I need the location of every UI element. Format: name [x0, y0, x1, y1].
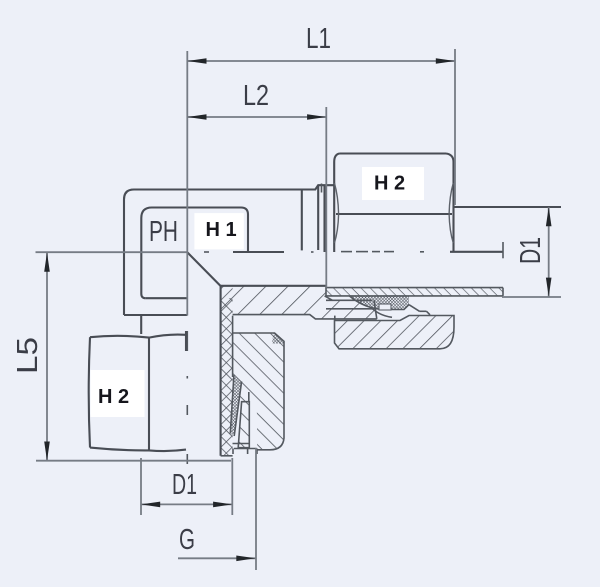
- body section band (hatched, right branch): [221, 286, 377, 319]
- svg-text:H 2: H 2: [374, 173, 405, 195]
- centerline vertical x=187: [186, 51, 188, 464]
- svg-text:H 2: H 2: [98, 386, 129, 408]
- svg-text:D1: D1: [515, 237, 547, 264]
- body inner profile (hex flats box): [141, 208, 248, 299]
- tube external (right): [450, 207, 561, 258]
- label H2 bottom (white box): [91, 370, 145, 417]
- label H2 top (white box): [362, 167, 424, 200]
- svg-text:H 1: H 1: [206, 219, 237, 241]
- bottom nut section block (hatched): [233, 333, 284, 450]
- right nut section block (hatched): [335, 316, 455, 349]
- thread relief trapezoid (white): [238, 392, 249, 448]
- centerline horizontal y=252 dashes: [204, 251, 424, 253]
- dimension L5: [12, 252, 231, 461]
- seal wedge (dense): [230, 375, 241, 436]
- cutting ring zone (dense mesh): [350, 296, 410, 310]
- dimension D1 (right): [502, 207, 561, 297]
- dimension D1 (bottom): [141, 458, 232, 515]
- stud below body (external half): [140, 315, 142, 334]
- svg-text:L2: L2: [243, 80, 269, 112]
- svg-text:L5: L5: [12, 337, 44, 374]
- dimension G: [178, 448, 256, 570]
- svg-text:L1: L1: [306, 23, 331, 55]
- bottom nut H2 external view: [89, 331, 186, 451]
- right nut H2 external view: [334, 154, 453, 253]
- dimension L1: [187, 23, 455, 205]
- svg-text:D1: D1: [172, 469, 197, 501]
- body outer profile (elbow): [124, 185, 334, 315]
- body band outline lines: [221, 286, 377, 456]
- body stud wall column (thread engagement, cross hatched): [221, 286, 233, 456]
- label H1 (white box): [194, 213, 243, 249]
- collar step verticals by right nut: [321, 184, 323, 193]
- body end face and collar: [302, 185, 325, 252]
- body corner chamfer: [188, 253, 221, 287]
- svg-text:G: G: [179, 524, 195, 556]
- dimension L2: [187, 80, 326, 288]
- svg-text:PH: PH: [149, 216, 178, 248]
- tube wall strip (section): [326, 288, 503, 296]
- nut step lines near cutting ring: [326, 300, 430, 317]
- bottom nut section bottom edges: [221, 444, 257, 456]
